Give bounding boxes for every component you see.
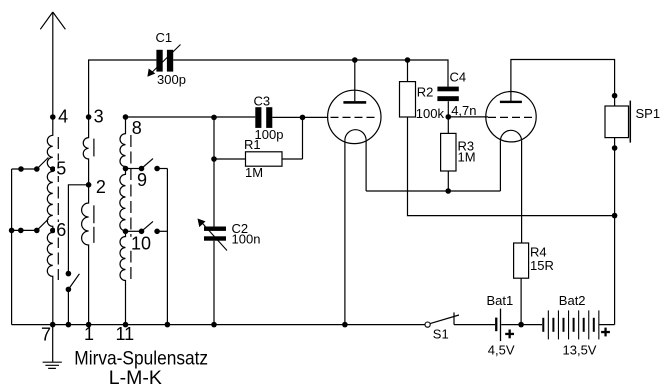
wire node3 up to C1 (89, 60, 157, 117)
speaker SP1 body (605, 106, 629, 138)
svg-text:C4: C4 (450, 70, 467, 85)
battery Bat1 plus plate (500, 309, 502, 342)
wire bus to switch row 5 (12, 168, 37, 170)
tube V1 anode lead (354, 60, 356, 101)
battery Bat1 minus plate (495, 318, 497, 332)
wire node10 to switch (126, 230, 142, 232)
svg-text:4,7n: 4,7n (451, 103, 476, 118)
svg-text:R1: R1 (244, 137, 261, 152)
capacitor C4 bottom lead (447, 101, 449, 117)
plus sign Bat1 (505, 333, 514, 335)
svg-text:4: 4 (58, 106, 68, 126)
coil L3 core (130, 135, 132, 280)
resistor R4 body (514, 243, 529, 278)
tube V1 anode plate (343, 101, 366, 104)
wire contact 9 to vertical (157, 168, 167, 170)
svg-text:Mirva-Spulensatz: Mirva-Spulensatz (74, 347, 208, 369)
wire S1 to Bat1 (454, 324, 495, 326)
svg-text:1: 1 (84, 324, 94, 344)
C1 variable arrow (151, 45, 181, 74)
svg-text:9: 9 (137, 170, 147, 190)
tube V2 envelope (486, 92, 536, 142)
wire node8 row to C3 (126, 116, 256, 118)
svg-text:3: 3 (94, 106, 104, 126)
wire node9 to switch (126, 168, 142, 170)
bottom rail (12, 324, 425, 326)
coil L3 (taps 8,9,10,11) (120, 117, 126, 325)
wire R1 left lead (214, 158, 246, 160)
speaker SP1 membrane line (629, 101, 631, 143)
C2 arrow head (198, 219, 206, 228)
wire contact 10 to vertical (157, 230, 167, 232)
wire C3right junction down to R1 (302, 117, 304, 159)
svg-text:100n: 100n (232, 231, 261, 246)
svg-text:S1: S1 (433, 327, 449, 342)
tube V1 envelope (328, 90, 381, 143)
resistor R4 bottom lead (520, 278, 522, 324)
svg-text:13,5V: 13,5V (563, 343, 597, 358)
antenna (52, 12, 54, 117)
coil L2 core (93, 139, 95, 157)
wire node2 branch left and down (68, 185, 88, 274)
switch S1 blade (430, 315, 459, 324)
wire filament rail (366, 190, 500, 192)
wire bus to switch row 6 (12, 229, 37, 231)
tube V2 filament left leg (499, 141, 501, 191)
tube V2 filament right leg to R4 (521, 141, 523, 243)
wire C3 right to tube V1 grid (272, 116, 328, 118)
tube V2 anode lead to SP1 (511, 60, 615, 107)
svg-text:8: 8 (132, 118, 142, 138)
svg-text:11: 11 (116, 324, 135, 344)
svg-text:1M: 1M (458, 150, 476, 165)
tube V2 anode plate (500, 101, 522, 103)
switch blade at node 5 (37, 158, 49, 170)
resistor R3 body (441, 133, 456, 171)
coil L2 (taps 3,2,1) (82, 117, 89, 325)
wire C1 right to C4 corner (173, 60, 448, 87)
wire C2 bottom lead (213, 241, 215, 325)
svg-text:R2: R2 (417, 85, 434, 100)
svg-text:6: 6 (56, 220, 66, 240)
tube V2 grid (dashed) (488, 116, 536, 118)
tube V2 filament (500, 130, 521, 141)
svg-text:2: 2 (96, 177, 106, 197)
switch S1 fixed contact (453, 312, 455, 324)
svg-text:300p: 300p (157, 72, 186, 87)
switch blade at node 6 (37, 219, 49, 230)
C1 arrow head (147, 69, 155, 77)
switch blade at node 10 (142, 221, 154, 231)
svg-text:SP1: SP1 (636, 106, 661, 121)
wire C2 top lead (213, 117, 215, 226)
coil L1 core (57, 137, 59, 280)
svg-text:1M: 1M (245, 165, 263, 180)
svg-text:Bat2: Bat2 (559, 293, 586, 308)
label backgrounds (55, 161, 138, 251)
resistor R1 body (246, 152, 283, 166)
wire R1 right lead (282, 158, 303, 160)
svg-text:15R: 15R (530, 258, 554, 273)
svg-text:C1: C1 (156, 30, 173, 45)
wire C4/R3 junction to tube V2 grid (448, 116, 488, 118)
tube V1 filament (345, 130, 366, 141)
wire vertical right of coil3 to rail (166, 169, 168, 325)
svg-text:4,5V: 4,5V (488, 343, 515, 358)
wire switch to rail (67, 289, 69, 324)
wire left bus vertical (11, 169, 13, 325)
switch S1 open contact circle (425, 322, 430, 327)
capacitor C2 plates (204, 227, 226, 231)
svg-text:7: 7 (41, 325, 51, 345)
svg-text:Bat1: Bat1 (487, 293, 514, 308)
svg-text:100k: 100k (416, 106, 445, 121)
switch blade below node 2 (68, 274, 79, 290)
svg-text:L-M-K: L-M-K (109, 367, 162, 389)
resistor R3 leads (447, 117, 449, 191)
wire Bat2 to right edge (599, 324, 615, 326)
switch blade at node 9 (142, 159, 154, 169)
plus sign Bat2 (601, 331, 610, 333)
coil L1 (antenna coil, taps 4,5,6,7) (47, 117, 52, 325)
ground (43, 325, 62, 369)
tube V1 filament left leg to rail (344, 140, 346, 324)
svg-text:10: 10 (131, 233, 151, 253)
tube V1 grid (dashed) (331, 116, 378, 118)
capacitor C1 plates (156, 50, 162, 72)
wire SP1 bottom down to battery rail (614, 138, 616, 325)
resistor R2 leads (408, 60, 615, 216)
wire Bat1 to Bat2 (501, 324, 542, 326)
capacitor C3 plates (255, 107, 261, 128)
battery Bat2 cell plates (542, 318, 544, 332)
C2 variable arrow (202, 222, 228, 250)
tube V1 filament right leg (365, 140, 367, 191)
svg-text:5: 5 (56, 159, 66, 179)
svg-text:C3: C3 (254, 94, 271, 109)
capacitor C4 plates (437, 87, 458, 92)
resistor R2 body (400, 82, 416, 117)
